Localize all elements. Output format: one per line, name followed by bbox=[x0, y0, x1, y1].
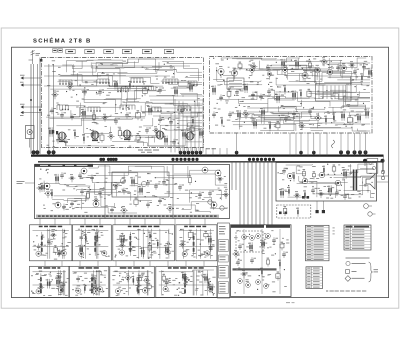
antenna input symbol bbox=[29, 50, 43, 64]
bus junction nodes upper bbox=[31, 150, 367, 155]
video amplifier cluster rows bbox=[48, 80, 203, 146]
value labels video section bbox=[47, 60, 200, 146]
tube V5 socket bbox=[186, 132, 194, 140]
audio detector circuits bbox=[31, 270, 68, 296]
output socket box bbox=[367, 159, 378, 174]
connector labels small pair bbox=[53, 49, 63, 52]
electrolytic capacitor C15 bbox=[52, 130, 58, 134]
feedback loop wiring bbox=[149, 96, 203, 152]
inter-row stubs bbox=[40, 219, 205, 267]
legend socket symbol bbox=[346, 261, 366, 265]
video section wiring harness bbox=[46, 59, 202, 146]
designation table bbox=[344, 225, 371, 250]
frame oscillator block box bbox=[35, 165, 230, 219]
bus junction nodes lower bbox=[99, 158, 275, 162]
IF coil combs bbox=[44, 66, 198, 112]
right margin link wires bbox=[377, 156, 389, 182]
audio block circuits bbox=[278, 164, 375, 200]
terminal strip column bbox=[217, 223, 229, 298]
frame block dividers bbox=[105, 165, 173, 219]
input terminal J4 bbox=[20, 111, 42, 116]
fusible links bbox=[279, 196, 309, 214]
line output stage circuits bbox=[115, 229, 175, 259]
bus junction nodes right bbox=[363, 159, 385, 172]
audio output block box bbox=[276, 163, 377, 202]
deflection panel header bbox=[231, 225, 264, 228]
audio preamp circuits bbox=[72, 270, 108, 295]
inter-section risers mid bbox=[232, 162, 272, 225]
dropper wires top blocks to bus bbox=[34, 64, 366, 156]
speaker connector bbox=[381, 170, 384, 179]
frame block header text bbox=[40, 165, 88, 166]
table side notes bbox=[333, 228, 335, 235]
output transformer bbox=[350, 170, 357, 191]
frame block caption strip bbox=[36, 215, 219, 218]
audio preamp box bbox=[69, 266, 108, 297]
main supply bus bbox=[31, 154, 384, 156]
legend plug symbol bbox=[346, 270, 357, 274]
IF strip wiring bbox=[213, 58, 370, 131]
power supply circuits bbox=[112, 270, 154, 296]
power supply box bbox=[110, 266, 155, 297]
line output stage box bbox=[113, 225, 175, 261]
label TLT bbox=[138, 148, 216, 152]
pincushion coil bbox=[332, 140, 335, 148]
transistor row IF bbox=[218, 63, 347, 82]
loudspeaker bbox=[366, 174, 375, 189]
potentiometer knobs bbox=[208, 200, 228, 210]
value labels IF section bbox=[213, 58, 370, 130]
IF component clusters bbox=[211, 57, 372, 131]
valve voltage table bbox=[306, 225, 330, 260]
frame block circuits bbox=[36, 166, 229, 215]
deflection panel circuits bbox=[232, 229, 289, 294]
connector label strip ovals bbox=[66, 49, 174, 53]
supply rail left bbox=[30, 58, 41, 155]
footnote bbox=[326, 290, 366, 293]
svg-text:SCHÉMA 2T8 B: SCHÉMA 2T8 B bbox=[33, 37, 92, 45]
audio detector box bbox=[30, 266, 69, 297]
deflection panel box bbox=[231, 225, 292, 297]
line oscillator box bbox=[72, 225, 111, 261]
frame block header bbox=[35, 164, 94, 167]
tube V2 socket bbox=[91, 131, 99, 141]
convergence sub box dashed bbox=[277, 205, 311, 218]
frame output circuits bbox=[179, 229, 215, 259]
video section enclosure (dash-dot) bbox=[42, 58, 204, 148]
EHT rectifier circuits bbox=[159, 270, 216, 296]
IF strip enclosure (dash-dot) bbox=[210, 57, 373, 134]
sync separator box bbox=[30, 225, 72, 261]
width control pots bbox=[364, 204, 376, 217]
fuse table bbox=[306, 267, 323, 289]
control label left margin bbox=[17, 181, 35, 184]
drawing number bbox=[286, 301, 295, 304]
blanking sub-module box bbox=[112, 172, 169, 197]
input terminal J1 bbox=[20, 75, 42, 80]
sync separator circuits bbox=[33, 229, 71, 260]
EHT rectifier box bbox=[156, 266, 217, 297]
balun module bbox=[26, 126, 35, 148]
legend brace bbox=[369, 262, 378, 282]
caption strip text bbox=[38, 215, 217, 217]
delay line module box bbox=[316, 84, 352, 102]
input terminal J2 bbox=[20, 82, 42, 87]
input terminal J3 bbox=[20, 104, 42, 109]
legend title bbox=[346, 257, 370, 260]
thermistor pair bbox=[316, 201, 326, 213]
line oscillator circuits bbox=[75, 229, 109, 259]
schematic border frame bbox=[12, 47, 389, 297]
tuner module box bbox=[227, 78, 244, 89]
tube V4 socket bbox=[156, 131, 164, 139]
tube V1 socket bbox=[58, 132, 66, 142]
tube V3 socket bbox=[123, 130, 131, 140]
frame output box bbox=[176, 225, 217, 261]
legend diode symbol bbox=[345, 276, 364, 282]
secondary supply bus bbox=[38, 161, 384, 163]
